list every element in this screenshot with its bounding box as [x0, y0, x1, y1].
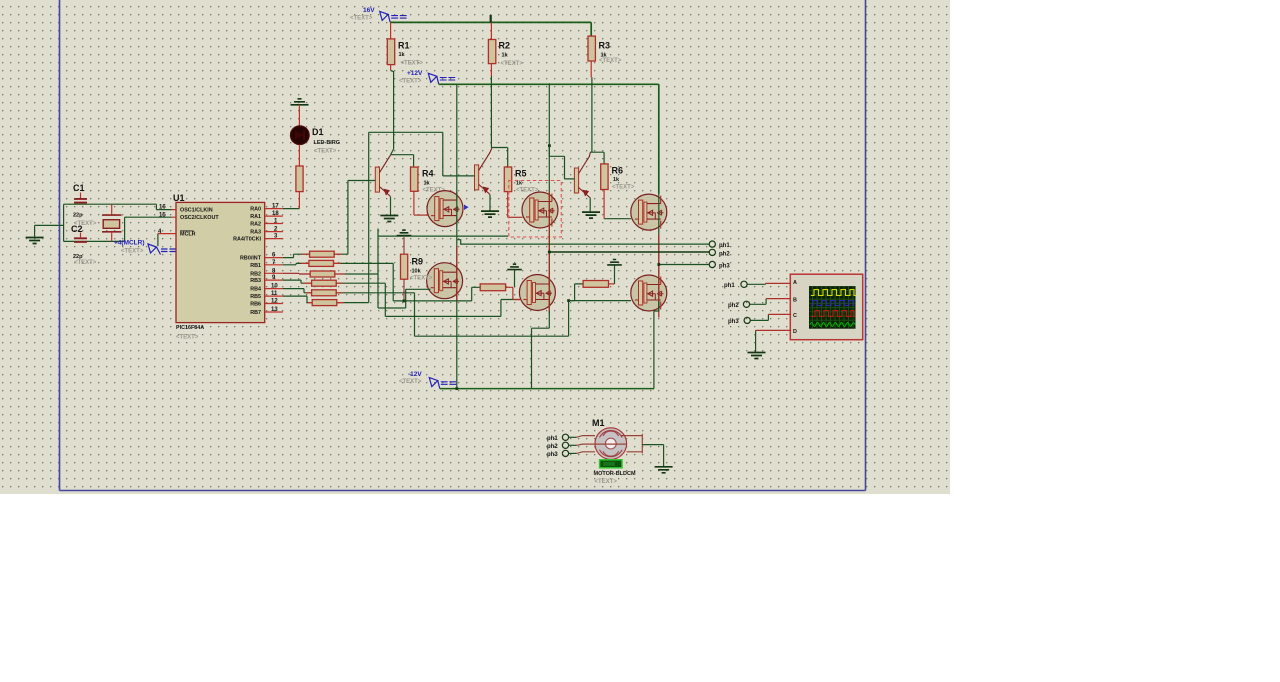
ground above R9: [397, 230, 412, 235]
wire Q2 base: [443, 175, 475, 177]
svg-text:<TEXT>: <TEXT>: [399, 379, 422, 385]
svg-text:A: A: [793, 280, 797, 286]
svg-text:PIC16F84A: PIC16F84A: [176, 325, 204, 331]
wire ground to C1/C2 node: [35, 225, 64, 237]
sheet border frame: [60, 0, 866, 491]
svg-text:LED-BIRG: LED-BIRG: [314, 140, 341, 146]
svg-text:<TEXT>: <TEXT>: [401, 61, 424, 67]
wire ph3 to scope C: [750, 314, 768, 320]
wire R4 to gate of top-left mosfet: [414, 214, 428, 216]
wire RB1 to stack: [283, 263, 309, 264]
wire RB0 to stack: [283, 254, 310, 257]
MOSFET bottom-left: [427, 263, 463, 299]
transistor Q1 (pnp): [375, 155, 390, 197]
wire ph2 line: [549, 251, 709, 253]
gate resistor bottom-right: [583, 281, 608, 288]
junction node at mid drain tap: [548, 144, 551, 147]
svg-text:R2: R2: [499, 41, 511, 51]
wire RB4 to stack: [283, 289, 312, 293]
wire Q1 base: [348, 180, 375, 182]
terminal ph1 (scope side): [741, 281, 747, 287]
ground Q3 emitter: [582, 212, 600, 218]
svg-text:ph3: ph3: [728, 319, 739, 325]
junction R9 bottom node: [403, 300, 406, 303]
ground (bottom-middle gate): [507, 264, 522, 269]
svg-text:15: 15: [159, 213, 166, 219]
power terminal at MCLR: [148, 244, 176, 255]
resistor (LED series): [296, 166, 303, 192]
wires motor terminals: [569, 436, 577, 438]
motor right side connections: [621, 434, 643, 454]
svg-text:RA3: RA3: [250, 230, 261, 236]
pin numbers right: [271, 204, 279, 313]
wire ph1 line: [457, 240, 709, 244]
wire R5 to gate of top-middle mosfet: [508, 216, 523, 218]
wire Q2 base feed from above: [369, 132, 443, 176]
capacitor C2: [71, 224, 97, 266]
trace B blue: [811, 301, 855, 306]
svg-text:10k: 10k: [412, 269, 422, 275]
svg-text:RA1: RA1: [250, 214, 261, 220]
resistor R2: [488, 22, 523, 76]
screen grid: [813, 287, 854, 328]
LED D1: [291, 105, 341, 166]
resistor stack 2: [309, 260, 334, 266]
-12V rail: [440, 388, 654, 390]
MOSFET bottom-middle: [519, 275, 555, 311]
svg-text:-12V: -12V: [408, 371, 422, 378]
svg-text:10: 10: [271, 284, 278, 290]
resistor R4: [411, 167, 446, 215]
wire R1 to Q1 collector: [391, 71, 414, 168]
wire phase2 vertical: [548, 146, 550, 311]
svg-text:D: D: [793, 329, 797, 335]
svg-text:RB0/INT: RB0/INT: [240, 256, 262, 262]
capacitor C1: [73, 183, 97, 227]
junction ph2: [548, 251, 551, 254]
resistor stack 1: [310, 251, 335, 257]
schematic sheet background: [0, 0, 950, 494]
svg-text:12: 12: [271, 299, 278, 305]
wire stack1 to Q1 base: [334, 181, 348, 255]
trace D green: [810, 323, 855, 327]
svg-text:16V: 16V: [363, 7, 375, 14]
MOSFET bottom-right: [631, 275, 667, 311]
terminal ph3 (scope side): [744, 317, 750, 323]
16V rail: [390, 22, 591, 36]
svg-text:1k: 1k: [502, 53, 509, 59]
terminal ph3: [709, 261, 715, 267]
wire ph2 to scope B: [750, 299, 766, 305]
display: [600, 460, 622, 468]
svg-text:OSC1/CLKIN: OSC1/CLKIN: [180, 208, 213, 214]
wire Q3 emitter to ground: [589, 198, 591, 213]
svg-text:ph2: ph2: [547, 444, 558, 450]
ground Q2 emitter: [481, 211, 499, 217]
svg-text:RB6: RB6: [250, 302, 261, 308]
wire Q3 base feed staircase from +12V: [549, 83, 574, 179]
wire R6 to gate of top-right mosfet: [604, 218, 631, 220]
svg-text:RB7: RB7: [250, 310, 261, 316]
junction at phase1 bottom: [455, 387, 458, 390]
svg-text:R9: R9: [412, 257, 424, 267]
svg-text:OSC2/CLKOUT: OSC2/CLKOUT: [180, 215, 219, 221]
svg-text:<TEXT>: <TEXT>: [350, 16, 373, 22]
wire ph1 to scope A: [747, 282, 765, 285]
+12V rail: [439, 84, 659, 193]
power terminal 16V: [350, 7, 407, 22]
MOSFET top-middle: [522, 192, 558, 228]
svg-text:RA0: RA0: [250, 207, 261, 213]
wire R3 to Q3 collector: [590, 77, 604, 164]
svg-text:MOTOR-BLDCM: MOTOR-BLDCM: [594, 471, 636, 477]
svg-text:11: 11: [271, 291, 278, 297]
svg-text:ph1: ph1: [547, 436, 558, 442]
svg-text:<TEXT>: <TEXT>: [121, 249, 144, 255]
svg-text:RB5: RB5: [250, 294, 261, 300]
wire RA0 to LED resistor: [283, 208, 300, 210]
terminal ph1: [709, 241, 715, 247]
svg-text:C2: C2: [71, 224, 83, 234]
resistor R1: [387, 22, 423, 70]
svg-text:<TEXT>: <TEXT>: [595, 479, 618, 485]
resistor R6: [601, 164, 635, 219]
wire ph3 line: [659, 264, 709, 266]
resistor stack 5: [312, 290, 337, 296]
svg-text:<TEXT>: <TEXT>: [314, 149, 337, 155]
stack resistor pin leads (red overlays): [301, 254, 344, 302]
svg-text:ph3: ph3: [719, 264, 730, 270]
power terminal +12V: [399, 70, 455, 85]
wire stack5 long route to bottom-right resistor: [336, 284, 583, 336]
svg-text:RA2: RA2: [250, 222, 261, 228]
svg-text:R4: R4: [422, 169, 434, 179]
svg-text:<TEXT>: <TEXT>: [410, 276, 433, 282]
ground above LED (inverted): [291, 99, 309, 105]
ground far left: [26, 238, 44, 244]
svg-text:R3: R3: [599, 41, 611, 51]
svg-text:<TEXT>: <TEXT>: [74, 260, 97, 266]
trace C red: [811, 311, 855, 317]
wire C2 bottom rail to OSC2/crystal: [64, 217, 172, 241]
svg-text:22p: 22p: [73, 213, 83, 219]
svg-text:ph1: ph1: [724, 283, 735, 289]
terminal ph1 (motor): [562, 434, 568, 440]
resistor R3: [588, 36, 622, 77]
wire stack3 right lead: [335, 273, 345, 275]
svg-text:ph2: ph2: [719, 252, 730, 258]
wire scope D to ground: [756, 329, 791, 331]
svg-text:C1: C1: [73, 183, 85, 193]
svg-text:RA4/T0CKI: RA4/T0CKI: [233, 237, 261, 243]
svg-text:<TEXT>: <TEXT>: [399, 79, 422, 85]
svg-text:+4(MCLR): +4(MCLR): [114, 240, 145, 247]
wire to ground + gate (bottom-middle): [506, 287, 520, 299]
svg-text:ph1: ph1: [719, 243, 730, 249]
svg-text:1k: 1k: [613, 177, 620, 183]
resistor stack 3: [310, 271, 335, 277]
blue marker arrow: [464, 205, 469, 211]
terminal ph2 (motor): [562, 442, 568, 448]
svg-text:<TEXT>: <TEXT>: [176, 335, 199, 341]
wire to ground + gate (bottom-right): [609, 283, 615, 285]
crystal X1: [102, 204, 122, 241]
wire stack3 net up and down: [345, 229, 508, 309]
wire RB5 to stack: [283, 296, 312, 303]
wire stack4 long route to bottom-middle gate: [336, 283, 520, 316]
svg-text:M1: M1: [592, 418, 605, 428]
wire Q2 emitter to ground: [489, 195, 491, 212]
ground (bottom-right gate): [607, 260, 622, 265]
svg-text:R5: R5: [515, 169, 527, 179]
wire MCLR down to power arrow: [157, 234, 159, 246]
wire RB3 to stack: [283, 280, 312, 283]
wire Q1 emitter to ground: [390, 197, 392, 216]
wire stack6 up to Q2 base feed: [337, 132, 369, 302]
svg-text:RB3: RB3: [250, 278, 261, 284]
svg-text:18: 18: [272, 211, 279, 217]
selection box (dashed) around top-middle mosfet: [509, 181, 562, 238]
svg-text:C: C: [793, 313, 797, 319]
MOSFET top-left: [427, 191, 463, 227]
svg-text:MCLR: MCLR: [180, 232, 196, 238]
gate resistor bottom-middle: [480, 284, 505, 291]
left pin stubs: [158, 210, 176, 234]
resistor stack 6: [312, 300, 337, 306]
junction res5 route tee: [567, 299, 570, 302]
svg-text:1k: 1k: [399, 52, 406, 58]
MOSFET top-right: [631, 194, 667, 230]
resistor R5: [504, 167, 539, 217]
svg-text:+12V: +12V: [407, 70, 423, 77]
svg-text:U1: U1: [173, 193, 185, 203]
terminal ph3 (motor): [562, 450, 568, 456]
svg-text:RB4: RB4: [250, 287, 261, 293]
svg-text:R6: R6: [612, 166, 624, 176]
power terminal -12V: [399, 371, 456, 389]
right pin stubs RB: [265, 258, 283, 312]
ground motor: [655, 467, 673, 473]
ground Q1 emitter: [380, 216, 398, 222]
transistor Q2 (pnp): [475, 153, 490, 195]
motor body: [595, 428, 627, 460]
transistor Q3 (pnp): [574, 156, 589, 198]
svg-text:ph3: ph3: [547, 452, 558, 458]
svg-text:16: 16: [159, 205, 166, 211]
svg-text:D1: D1: [312, 127, 324, 137]
svg-text:1k: 1k: [424, 181, 431, 187]
right pin stubs RA: [265, 209, 283, 239]
svg-text:<TEXT>: <TEXT>: [501, 61, 524, 67]
svg-text:<TEXT>: <TEXT>: [599, 58, 622, 64]
wire R2 to Q2 collector: [491, 76, 507, 167]
wire C1 top rail to OSC1: [64, 204, 172, 225]
junction ph3: [657, 263, 660, 266]
stub above rail at R2: [490, 15, 492, 22]
svg-text:B: B: [793, 298, 797, 304]
svg-text:1k: 1k: [516, 181, 523, 187]
svg-text:R1: R1: [398, 41, 410, 51]
wire phase1 vertical: [456, 84, 458, 388]
ground scope D: [748, 353, 766, 359]
svg-text:RB2: RB2: [250, 271, 261, 277]
wire stack2 to R9 bottom node: [334, 263, 481, 301]
terminal ph2: [709, 249, 715, 255]
resistor stack 4: [312, 280, 337, 286]
svg-text:ph2: ph2: [728, 303, 739, 309]
resistor R9: [401, 237, 433, 301]
terminal ph2 (scope side): [743, 301, 749, 307]
wire phase3 vertical: [658, 194, 660, 311]
svg-text:<TEXT>: <TEXT>: [612, 185, 635, 191]
wire RB2 to stack (selected red): [283, 272, 310, 275]
trace A yellow: [811, 290, 856, 296]
svg-text:17: 17: [272, 204, 279, 210]
svg-text:13: 13: [271, 307, 278, 313]
wire stack3 to bottom-left gate: [378, 289, 431, 308]
svg-text:RB1: RB1: [250, 263, 261, 269]
